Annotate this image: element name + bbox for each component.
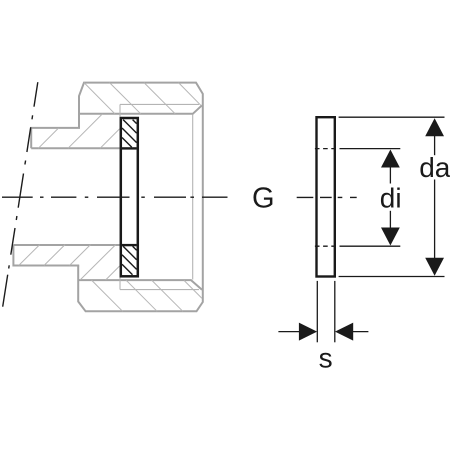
svg-text:di: di [380,183,402,214]
svg-text:G: G [252,183,275,215]
svg-text:s: s [319,342,333,373]
svg-text:da: da [419,152,450,183]
